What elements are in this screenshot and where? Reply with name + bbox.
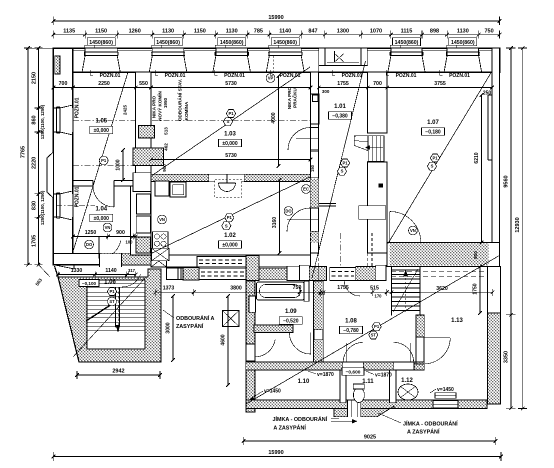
septic tank to demolish (X box)	[223, 311, 240, 327]
door 1.08 to 1.13	[424, 338, 450, 364]
hex P1 room 1.06	[107, 288, 116, 296]
svg-text:2250: 2250	[98, 81, 110, 87]
room 1.04 label	[90, 207, 113, 223]
svg-text:1450(860): 1450(860)	[220, 40, 244, 46]
hex symbol S	[223, 118, 232, 126]
room 1.10 label	[298, 379, 310, 385]
bottom facade wall left	[53, 253, 151, 269]
text ODBOURANI STAV KOMINA	[176, 79, 190, 121]
svg-text:3000: 3000	[166, 322, 172, 333]
svg-text:1.08: 1.08	[345, 319, 357, 325]
svg-text:150: 150	[310, 164, 315, 172]
svg-text:POZN.01: POZN.01	[75, 97, 81, 118]
dims 513/462	[164, 127, 169, 151]
svg-text:2150: 2150	[32, 72, 38, 84]
svg-text:1070: 1070	[370, 29, 382, 35]
svg-text:3800: 3800	[230, 286, 242, 292]
bottom wall stipple under 1.04	[100, 253, 151, 264]
top wall window openings	[82, 45, 482, 72]
wall between corridor 1.08 and rooms 1.10-1.12	[246, 362, 424, 370]
svg-text:250: 250	[483, 91, 492, 97]
wall between 1.03 and 1.02	[151, 174, 311, 181]
vertical dim 3160	[272, 178, 281, 255]
svg-text:±0,000: ±0,000	[222, 243, 237, 249]
demolition X-box in bottom wall	[151, 255, 167, 267]
svg-text:785: 785	[254, 29, 263, 35]
bathtub	[257, 282, 305, 300]
axis line 1.04	[56, 166, 135, 206]
opening in bottom wall to stair	[100, 253, 122, 267]
svg-text:3350: 3350	[504, 351, 510, 363]
text v=1450 b	[430, 387, 454, 393]
hex ST room 1.08	[369, 331, 378, 339]
fixture 1.12	[398, 384, 418, 400]
left dimension chain 2150/860/2220/830/1705	[28, 46, 53, 266]
dim 5730 lower	[149, 153, 315, 172]
kitchen stove and sink in 1.02	[152, 232, 170, 261]
dim chain wing y292	[154, 285, 495, 299]
svg-text:ZASYPÁNÍ: ZASYPÁNÍ	[176, 322, 204, 330]
svg-text:1140: 1140	[279, 29, 291, 35]
svg-text:830: 830	[32, 201, 38, 210]
dim chain rooms 1.05/1.03	[52, 81, 313, 91]
svg-text:1000: 1000	[116, 159, 122, 170]
hex symbol S	[222, 222, 231, 230]
partition 1.10-1.11	[340, 370, 346, 403]
svg-text:1.10: 1.10	[298, 379, 310, 385]
radiator 1.13	[435, 393, 456, 399]
text JIMKA 2	[378, 413, 458, 436]
exterior stair area with stipple (room 1.06)	[55, 266, 162, 362]
door lobby to 1.08	[289, 333, 311, 355]
diagonal demolition line rooms 1.04-1.05	[74, 72, 129, 250]
partition right of bathtub	[304, 281, 309, 301]
note POZN.01	[332, 70, 363, 79]
small stair 1.01 to 1.07	[354, 136, 384, 162]
diagonal demolition line room 1.02	[152, 177, 310, 253]
wall between middle rooms and 1.01	[311, 72, 319, 253]
right wall step	[488, 95, 492, 160]
svg-text:P1: P1	[227, 215, 233, 220]
svg-text:JÍMKA - ODBOURÁNÍ: JÍMKA - ODBOURÁNÍ	[273, 415, 328, 423]
svg-text:JÍMKA - ODBOURÁNÍ: JÍMKA - ODBOURÁNÍ	[403, 420, 458, 428]
left wall exterior buttress	[47, 152, 54, 198]
svg-text:DO: DO	[86, 242, 93, 247]
svg-text:9025: 9025	[364, 435, 376, 441]
room 1.08 label	[340, 319, 363, 335]
diagonal demolition line lower wing	[246, 256, 499, 404]
axis line 1.03	[152, 120, 310, 122]
svg-text:A ZASYPÁNÍ: A ZASYPÁNÍ	[407, 428, 440, 436]
svg-text:170: 170	[375, 294, 383, 299]
chimney niche hatch	[139, 126, 155, 138]
svg-text:P1: P1	[101, 158, 107, 163]
circle VN 3	[409, 226, 418, 235]
door 1.07 to corridor	[390, 211, 421, 242]
text ODBOURANI A ZASYPANI	[163, 310, 215, 330]
bottom overall dimension 15990	[52, 450, 503, 461]
note POZN.01	[440, 70, 471, 79]
svg-text:7765: 7765	[21, 146, 27, 158]
wing top wall (demolition stipple)	[167, 256, 387, 281]
top dimension chain row	[52, 29, 502, 39]
svg-text:5730: 5730	[225, 81, 237, 87]
text JIMKA 1	[273, 415, 340, 432]
svg-text:POZN.01: POZN.01	[75, 186, 81, 207]
svg-text:1250: 1250	[85, 230, 97, 236]
text v=1450 a	[250, 389, 281, 400]
wall between rooms 1.05 and 1.04	[73, 180, 136, 187]
svg-text:S: S	[341, 169, 344, 174]
room 1.11 label	[362, 379, 374, 385]
svg-text:NIKA PRO: NIKA PRO	[152, 95, 157, 118]
room 1.09 label	[279, 309, 302, 325]
svg-text:DO: DO	[285, 209, 292, 214]
dim chain 1250/900/100	[71, 230, 137, 245]
wall between 1.01 and 1.07	[368, 72, 388, 253]
svg-text:1.12: 1.12	[401, 378, 413, 384]
svg-text:1.09: 1.09	[285, 309, 297, 315]
svg-text:2942: 2942	[112, 369, 124, 375]
svg-text:1.07: 1.07	[427, 120, 439, 126]
svg-text:PRAČKU: PRAČKU	[292, 87, 298, 107]
axis line 1.05	[73, 120, 135, 122]
svg-text:VN: VN	[105, 225, 111, 230]
wall between 1.09 and lobby	[254, 325, 293, 333]
vertical dim 3000	[166, 294, 175, 362]
svg-text:15990: 15990	[268, 450, 283, 456]
svg-text:100: 100	[126, 240, 134, 245]
svg-text:1.13: 1.13	[451, 318, 463, 324]
vertical dim 6210	[474, 93, 483, 244]
svg-text:2220: 2220	[32, 157, 38, 169]
door to 1.10	[343, 342, 363, 362]
svg-text:1.02: 1.02	[224, 233, 236, 239]
text v=1870 a	[308, 371, 334, 378]
svg-text:−0,780: −0,780	[343, 328, 359, 334]
wing right wall upper	[488, 267, 501, 314]
svg-text:462: 462	[164, 143, 169, 151]
svg-text:1130: 1130	[162, 29, 174, 35]
door to 1.12	[394, 342, 414, 362]
svg-text:P1: P1	[432, 156, 438, 161]
door 1.02 to 1.01	[287, 208, 319, 232]
svg-text:POZN.01: POZN.01	[396, 73, 417, 79]
circle DO 2	[284, 207, 293, 216]
svg-text:847: 847	[308, 29, 317, 35]
wall between 1.08 and 1.13	[416, 315, 424, 364]
svg-text:750: 750	[485, 29, 494, 35]
door opening 1.04-1.02	[136, 194, 150, 233]
vertical dims 900/2425	[123, 104, 167, 171]
stipple in wall 1.04-1.02	[136, 237, 151, 253]
hex P1 room 1.08	[372, 323, 381, 331]
diagonal demolition line room 1.03	[152, 67, 310, 176]
svg-text:800: 800	[473, 251, 478, 259]
svg-text:700: 700	[59, 81, 68, 87]
hex symbol P1	[340, 159, 349, 167]
svg-text:NIKA PRO: NIKA PRO	[287, 86, 292, 109]
svg-text:ST: ST	[371, 332, 377, 337]
svg-text:1130: 1130	[226, 29, 238, 35]
svg-text:1330: 1330	[71, 268, 83, 274]
svg-text:POZN.01: POZN.01	[342, 73, 363, 79]
svg-text:S: S	[227, 119, 230, 124]
svg-text:1450(860): 1450(860)	[89, 40, 113, 46]
svg-text:1250(1100, 1250): 1250(1100, 1250)	[40, 190, 45, 225]
top exterior wall	[53, 48, 499, 72]
room 1.12 label	[401, 378, 413, 384]
text NIKA PRO PRACKU	[287, 86, 298, 109]
svg-text:−0,180: −0,180	[425, 130, 441, 136]
toilet 1.11	[353, 384, 364, 403]
vertical dim 1750	[473, 265, 482, 315]
svg-text:1450(860): 1450(860)	[156, 40, 180, 46]
svg-text:5730: 5730	[225, 153, 237, 159]
svg-text:1260: 1260	[129, 29, 141, 35]
main internal staircase	[392, 267, 421, 316]
hex symbol P1	[430, 154, 439, 162]
svg-text:1150: 1150	[194, 29, 206, 35]
dashed wall continuation below 1.01 left	[311, 253, 319, 267]
small black column	[379, 184, 383, 188]
corner chimney niche	[55, 56, 61, 74]
svg-text:3620: 3620	[436, 286, 448, 292]
room 1.13 label	[451, 318, 463, 324]
note POZN.01	[215, 70, 246, 79]
svg-text:−0,380: −0,380	[332, 114, 348, 120]
door lobby entry	[255, 336, 276, 357]
vertical dim 4000	[271, 74, 280, 168]
hex symbol P1	[226, 110, 235, 118]
svg-text:v=1870: v=1870	[375, 373, 392, 379]
svg-text:ST: ST	[109, 299, 115, 304]
svg-text:1373: 1373	[163, 286, 175, 292]
svg-text:P1: P1	[228, 111, 234, 116]
circle ST room 1.06	[108, 297, 117, 306]
svg-text:EC: EC	[303, 187, 309, 192]
note POZN.01	[90, 70, 121, 79]
svg-text:700: 700	[373, 81, 382, 87]
svg-text:9560: 9560	[504, 175, 510, 187]
svg-text:POZN.01: POZN.01	[224, 73, 245, 79]
svg-text:1950: 1950	[163, 97, 168, 108]
circle DO 1	[85, 240, 94, 249]
svg-text:3755: 3755	[434, 81, 446, 87]
note POZN.01	[386, 70, 417, 79]
svg-text:3160: 3160	[272, 217, 278, 228]
svg-text:v=1870: v=1870	[317, 372, 334, 378]
svg-text:1.01: 1.01	[334, 104, 346, 110]
svg-text:ODBOURÁNÍ STAV.: ODBOURÁNÍ STAV.	[176, 79, 183, 121]
text NIKA PRO NOVY KOMIN	[152, 91, 169, 121]
dimension 2942 exterior stair	[75, 369, 162, 380]
chimney demolition stipple	[133, 148, 164, 166]
diagonal demolition line room 1.01	[312, 61, 366, 278]
svg-text:−0,100: −0,100	[82, 281, 97, 286]
svg-text:v=1450: v=1450	[264, 389, 281, 395]
niche in wing left wall	[249, 296, 256, 312]
svg-text:750: 750	[293, 285, 302, 291]
wing right wall stipple	[488, 313, 501, 404]
right dimension line 9560/3350	[504, 46, 516, 410]
cupboard fixture	[359, 206, 386, 220]
svg-text:317: 317	[128, 268, 136, 273]
interior wall 550 between left and middle rooms	[131, 72, 152, 255]
svg-text:15990: 15990	[268, 15, 283, 21]
svg-text:VN: VN	[159, 217, 165, 222]
note POZN.01 vertical 2	[75, 186, 81, 207]
svg-text:6210: 6210	[474, 152, 480, 163]
niche below	[133, 173, 151, 192]
wall between 1.09 and 1.08	[314, 281, 324, 362]
svg-text:12930: 12930	[515, 217, 521, 232]
note POZN.01	[270, 70, 301, 79]
rear window opening room 1.01	[319, 48, 368, 72]
svg-text:1755: 1755	[337, 81, 349, 87]
svg-text:860: 860	[32, 115, 38, 124]
svg-text:POZN.01: POZN.01	[165, 73, 186, 79]
door in wing top wall	[344, 281, 360, 297]
hex symbol S	[427, 162, 436, 170]
circle P1 room 1.05	[99, 156, 108, 165]
svg-text:550: 550	[139, 81, 148, 87]
partition 1.11-1.12	[390, 370, 396, 403]
svg-text:−0,600: −0,600	[346, 370, 361, 376]
vertical dim 4600	[221, 294, 230, 387]
left overall dimension 7765	[21, 46, 33, 266]
room 1.05 label	[90, 119, 113, 135]
svg-text:900: 900	[116, 230, 125, 236]
note POZN.01	[155, 70, 186, 79]
svg-text:POZN.01: POZN.01	[449, 73, 470, 79]
svg-text:1130: 1130	[457, 29, 469, 35]
svg-text:NOVÝ KOMÍN: NOVÝ KOMÍN	[156, 91, 163, 121]
note POZN.01 vertical 1	[75, 97, 81, 118]
right exterior wall	[492, 48, 500, 262]
dimension 563 lower left	[35, 265, 50, 287]
svg-text:1.06: 1.06	[104, 280, 116, 286]
svg-text:4000: 4000	[271, 112, 277, 123]
bottom wall under rooms 1.02-1.03	[151, 255, 311, 267]
fixture step in 1.01	[319, 204, 336, 207]
right overall dimension 12930	[515, 46, 527, 410]
svg-text:ODBOURÁNÍ A: ODBOURÁNÍ A	[176, 314, 215, 322]
wing left wall with door opening	[246, 281, 255, 412]
svg-text:1450(860): 1450(860)	[273, 40, 297, 46]
axis vertical 1.01	[340, 233, 342, 267]
svg-text:1150: 1150	[95, 29, 107, 35]
svg-text:S: S	[225, 223, 228, 228]
svg-text:1250(1100, 1250): 1250(1100, 1250)	[40, 104, 45, 139]
svg-text:KOMÍNA: KOMÍNA	[182, 101, 189, 120]
circle EC	[302, 185, 311, 194]
svg-text:POZN.01: POZN.01	[280, 73, 301, 79]
bottom dimension 9025	[242, 435, 497, 446]
svg-text:A ZASYPÁNÍ: A ZASYPÁNÍ	[273, 424, 306, 432]
svg-text:1135: 1135	[63, 29, 75, 35]
boiler fixture	[215, 175, 241, 198]
room 1.06 label	[79, 280, 116, 287]
kitchen appliances top of 1.02	[155, 181, 186, 197]
dashed walls below 1.01	[311, 233, 373, 267]
svg-text:1750: 1750	[473, 283, 479, 294]
window spec boxes 1450(860)	[87, 38, 477, 46]
text v=1870 b	[366, 371, 392, 379]
svg-text:100: 100	[318, 291, 326, 296]
stair cut diagonal	[73, 277, 146, 357]
svg-text:POZN.01: POZN.01	[100, 73, 121, 79]
jimka bay (demolish)	[331, 400, 394, 423]
svg-text:1140: 1140	[105, 268, 116, 274]
dim chain 1330/1140	[56, 268, 137, 278]
svg-text:−0,520: −0,520	[283, 319, 299, 325]
room 1.07 label	[422, 120, 445, 136]
circle VN 1	[103, 223, 112, 232]
dashed demolition box A	[197, 257, 246, 268]
svg-text:±0,000: ±0,000	[222, 141, 237, 147]
svg-text:1450(860): 1450(860)	[451, 40, 475, 46]
svg-text:513: 513	[164, 127, 169, 135]
diagonal demolition line room 1.07	[388, 72, 492, 244]
left wall window openings	[53, 105, 73, 220]
door 1.03 to 1.01	[288, 128, 319, 151]
svg-text:P1: P1	[374, 324, 380, 329]
svg-text:1755: 1755	[337, 285, 349, 291]
overall top dimension line 15990	[52, 15, 502, 25]
room 1.03 label	[219, 132, 242, 148]
svg-text:S: S	[431, 164, 434, 169]
circle VP	[266, 56, 275, 82]
svg-text:1300: 1300	[337, 29, 349, 35]
wing bottom wall	[246, 400, 487, 408]
svg-text:VP: VP	[268, 76, 274, 81]
svg-text:±0,000: ±0,000	[94, 128, 109, 134]
hex symbol P1	[225, 214, 234, 222]
svg-text:1.05: 1.05	[95, 119, 107, 125]
svg-text:4600: 4600	[221, 334, 227, 345]
door arc room 1.04 lower	[99, 237, 121, 259]
svg-text:898: 898	[430, 29, 439, 35]
room 1.01 label	[329, 104, 352, 120]
dim chain rooms 1.01/1.07	[317, 81, 494, 97]
room 1.07 bottom wall band	[387, 243, 500, 277]
svg-text:1.04: 1.04	[95, 207, 107, 213]
svg-text:1.03: 1.03	[224, 132, 236, 138]
svg-text:1115: 1115	[401, 29, 413, 35]
svg-text:515: 515	[370, 286, 379, 292]
svg-text:v=1450: v=1450	[437, 387, 454, 393]
svg-text:1450(860): 1450(860)	[395, 40, 419, 46]
svg-text:P1: P1	[342, 161, 348, 166]
svg-text:±0,000: ±0,000	[94, 216, 109, 222]
door 1.05-1.04	[93, 186, 114, 207]
svg-text:1705: 1705	[32, 235, 38, 247]
svg-text:1.11: 1.11	[362, 379, 374, 385]
elevation box -0,600	[342, 368, 364, 376]
hex symbol S	[337, 167, 346, 175]
vertical dim 1000	[116, 148, 125, 182]
circle VN 2	[158, 215, 167, 224]
svg-text:900: 900	[162, 164, 167, 172]
room 1.02 label	[219, 233, 242, 249]
svg-text:P1: P1	[109, 289, 115, 294]
left exterior wall	[53, 48, 73, 265]
svg-text:2425: 2425	[123, 104, 128, 115]
door arc to stair chamber	[122, 274, 141, 287]
svg-text:300: 300	[322, 89, 330, 94]
vertical dim 800	[473, 251, 478, 259]
